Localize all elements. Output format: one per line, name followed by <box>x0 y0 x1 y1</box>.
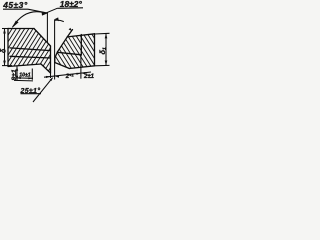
arrow delta top <box>3 29 6 34</box>
delta dim: extension bottom <box>2 65 12 67</box>
arrow 18 arc left <box>54 17 58 21</box>
arrow gap right (points left) <box>55 76 59 78</box>
svg-text:25±1°: 25±1° <box>20 87 41 95</box>
arrow 18 arc right <box>69 28 72 31</box>
extension line root gap right + vertical reference for 18deg <box>54 20 56 80</box>
arrow 45 arc left end <box>12 21 19 29</box>
right plate bevel extension above <box>67 30 72 37</box>
arrow delta bottom <box>3 61 6 66</box>
left plate internal line 2 <box>10 56 51 58</box>
arrow at x81 pointing left <box>81 72 85 74</box>
dimension line bottom 2+1 and 2±1 <box>44 72 91 77</box>
25 text underline <box>21 93 42 95</box>
hatch left plate <box>0 0 113 240</box>
8±1 dim line <box>16 66 18 80</box>
18 deg arc <box>55 20 64 21</box>
45 deg arc <box>13 12 47 27</box>
45 text leader <box>28 9 47 13</box>
arrow 10 left <box>17 77 21 79</box>
left plate bottom transition slope <box>41 64 51 73</box>
svg-text:10±1: 10±1 <box>19 73 31 79</box>
arrowheads <box>3 12 107 82</box>
right plate internal horizontal line <box>58 52 82 55</box>
left plate bevel 45deg <box>34 29 51 47</box>
delta dim line <box>4 29 6 66</box>
delta1 dim line <box>105 33 107 65</box>
left plate left edge <box>7 29 9 67</box>
arrow at x81 pointing right <box>77 73 81 75</box>
svg-text:18±2°: 18±2° <box>60 0 83 9</box>
10±1 dim line <box>16 77 33 79</box>
arrow 8 top <box>16 66 18 71</box>
svg-text:2±1: 2±1 <box>83 74 95 80</box>
45 deg vertical reference line <box>46 13 48 43</box>
svg-text:δ: δ <box>1 48 8 53</box>
right plate right edge <box>94 34 96 66</box>
18 text leader <box>44 8 58 14</box>
right plate top edge <box>67 34 94 37</box>
10±1 extension right <box>31 69 33 80</box>
arrow 45 arc right end <box>42 12 48 16</box>
svg-text:8±1: 8±1 <box>11 69 18 81</box>
45 text underline <box>3 8 28 10</box>
right plate internal vertical line <box>80 35 82 56</box>
left plate bottom edge <box>8 64 41 67</box>
delta dim: extension top <box>2 28 9 30</box>
right plate bottom transition slope 25deg <box>55 63 70 69</box>
hatch right plate <box>0 0 113 240</box>
25 leader <box>33 78 53 102</box>
8±1 bottom extension line <box>14 79 33 82</box>
delta1 dim: extension bottom <box>95 64 110 66</box>
left plate top edge <box>8 28 34 30</box>
arrow delta1 bottom <box>105 61 108 66</box>
arrow 25 leader top <box>50 77 53 81</box>
svg-text:δ₁: δ₁ <box>98 47 107 55</box>
right plate bottom edge <box>69 66 94 69</box>
right plate root face <box>55 52 58 63</box>
delta1 dim: extension top <box>95 32 110 35</box>
right plate bevel 18deg <box>58 37 68 52</box>
extension line root gap left <box>50 73 52 78</box>
18 text underline <box>58 7 84 10</box>
svg-text:45±3°: 45±3° <box>2 0 28 10</box>
arrow 8 bottom <box>16 76 18 81</box>
left plate root face <box>50 46 52 73</box>
arrow 10 right <box>28 77 32 79</box>
extension line x81 below plate <box>80 55 82 79</box>
arrow gap left (points right) <box>46 76 51 78</box>
left plate internal line 1 <box>10 48 51 51</box>
texts <box>1 0 107 95</box>
arrow delta1 top <box>105 33 108 38</box>
